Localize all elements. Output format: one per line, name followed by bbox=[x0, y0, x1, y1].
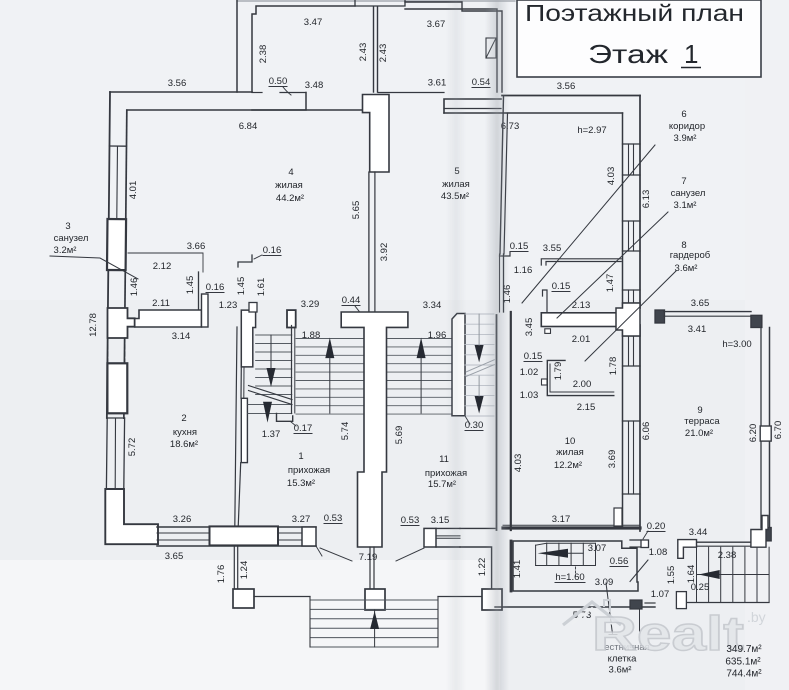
svg-text:2.12: 2.12 bbox=[153, 261, 172, 272]
wall left outer bbox=[107, 92, 110, 418]
svg-text:3.55: 3.55 bbox=[543, 243, 562, 254]
stairwell inner stairs bbox=[546, 543, 548, 565]
svg-text:1.88: 1.88 bbox=[302, 330, 321, 341]
wall left bay outer bbox=[236, 0, 238, 92]
leader 0.44 bbox=[355, 306, 362, 315]
svg-text:1.78: 1.78 bbox=[608, 357, 619, 376]
wall room10 top bar bbox=[541, 313, 621, 327]
svg-text:3.2м²: 3.2м² bbox=[54, 245, 77, 256]
threshold right bay bbox=[378, 92, 444, 94]
stair arrow down 1 bbox=[267, 368, 276, 387]
pier small bottom bbox=[676, 592, 686, 609]
fold shadow bbox=[485, 0, 509, 690]
bracket 0.16 bbox=[238, 255, 252, 267]
svg-text:1.24: 1.24 bbox=[239, 561, 250, 580]
svg-text:3.26: 3.26 bbox=[173, 514, 192, 525]
svg-text:3.45: 3.45 bbox=[524, 318, 535, 337]
svg-text:3.34: 3.34 bbox=[423, 300, 442, 311]
title block box bbox=[517, 0, 761, 77]
wall stair shaft left pier white bbox=[241, 310, 255, 367]
svg-text:2.01: 2.01 bbox=[572, 334, 591, 345]
windows right wall bbox=[623, 143, 641, 145]
pillar left bbox=[233, 589, 254, 608]
L pier right bbox=[751, 516, 768, 548]
wall right outer lines bbox=[639, 96, 641, 309]
closet walls room8 bbox=[547, 360, 614, 395]
svg-text:2.11: 2.11 bbox=[152, 298, 170, 309]
stair arrow up 2 bbox=[417, 338, 426, 359]
svg-text:1.76: 1.76 bbox=[216, 565, 227, 584]
wall center thin double bbox=[368, 172, 370, 312]
svg-text:15.3м²: 15.3м² bbox=[287, 478, 315, 489]
pier top bay left bbox=[252, 93, 306, 111]
svg-text:6.70: 6.70 bbox=[773, 421, 784, 440]
svg-text:h=3.00: h=3.00 bbox=[722, 339, 751, 350]
svg-text:5.65: 5.65 bbox=[351, 201, 362, 220]
wall right bay outer bbox=[405, 2, 502, 92]
stub 0.16 wall bbox=[202, 294, 209, 327]
wall room11 right bar bbox=[452, 314, 465, 416]
pier left C bbox=[107, 363, 127, 413]
leader 0.16 bbox=[254, 255, 262, 259]
pier white small2 bbox=[424, 528, 436, 547]
svg-text:3.9м²: 3.9м² bbox=[674, 133, 697, 144]
svg-text:4.03: 4.03 bbox=[606, 167, 617, 186]
stair arrow down 2 bbox=[263, 402, 272, 423]
svg-text:2.00: 2.00 bbox=[573, 379, 592, 390]
svg-text:1.07: 1.07 bbox=[651, 589, 670, 600]
stairs break line bbox=[249, 386, 293, 400]
svg-text:5.69: 5.69 bbox=[394, 426, 405, 445]
wall kitchen top band bbox=[135, 310, 202, 327]
svg-text:1.02: 1.02 bbox=[520, 367, 539, 378]
svg-text:9: 9 bbox=[697, 405, 702, 416]
svg-text:349.7м²: 349.7м² bbox=[726, 644, 762, 655]
svg-text:прихожая: прихожая bbox=[288, 465, 330, 476]
svg-text:21.0м²: 21.0м² bbox=[685, 428, 713, 439]
pier white small1 bbox=[302, 527, 316, 546]
wall top inner right section bbox=[444, 112, 623, 114]
svg-text:10: 10 bbox=[565, 436, 576, 447]
svg-text:1: 1 bbox=[684, 39, 698, 69]
svg-text:12.78: 12.78 bbox=[88, 313, 99, 337]
svg-text:3.67: 3.67 bbox=[427, 19, 446, 30]
bay bump top center bbox=[355, 0, 405, 6]
faint stairs 0.30 bbox=[465, 313, 494, 315]
svg-text:3.14: 3.14 bbox=[172, 331, 191, 342]
leader kletka bbox=[606, 583, 613, 634]
svg-text:6: 6 bbox=[681, 109, 686, 120]
pier left B corner block bbox=[108, 308, 135, 338]
wall 10-11 divider thin top bbox=[503, 254, 505, 312]
wall stair mid pier bbox=[287, 310, 296, 327]
stair arrow down 3 bbox=[475, 345, 484, 362]
pillar center bbox=[365, 589, 385, 610]
dim line 3.66 bbox=[128, 253, 203, 272]
svg-text:1.45: 1.45 bbox=[236, 277, 247, 296]
svg-text:0.53: 0.53 bbox=[324, 513, 343, 524]
wall between bays (double line) bbox=[373, 7, 375, 92]
stair arrow up 1 bbox=[325, 338, 334, 359]
svg-text:0.20: 0.20 bbox=[647, 521, 666, 532]
pier right bay mouth bbox=[444, 99, 501, 113]
wall center pier top bbox=[363, 95, 390, 173]
svg-text:санузел: санузел bbox=[671, 188, 706, 199]
L pier left bbox=[678, 540, 697, 559]
leader 0.50 bbox=[283, 87, 291, 95]
svg-text:3.6м²: 3.6м² bbox=[675, 263, 698, 274]
wall bottom-left corner L black bbox=[105, 489, 158, 544]
svg-text:4: 4 bbox=[288, 167, 293, 178]
wire top scan edge bbox=[237, 0, 515, 2]
svg-text:санузел: санузел bbox=[54, 233, 89, 244]
wall left bay inner outline bbox=[252, 6, 355, 92]
stairs top wall double bbox=[697, 541, 751, 543]
svg-text:1.03: 1.03 bbox=[520, 390, 539, 401]
svg-text:жилая: жилая bbox=[556, 447, 584, 458]
svg-text:0.17: 0.17 bbox=[294, 423, 313, 434]
svg-text:1.37: 1.37 bbox=[262, 429, 281, 440]
svg-text:1.55: 1.55 bbox=[666, 566, 677, 585]
svg-text:18.6м²: 18.6м² bbox=[170, 439, 198, 450]
terrace top wall bbox=[655, 310, 665, 323]
bottom outer line bbox=[495, 606, 655, 608]
svg-text:3.56: 3.56 bbox=[168, 78, 187, 89]
svg-text:0.56: 0.56 bbox=[610, 556, 629, 567]
svg-text:0.16: 0.16 bbox=[263, 245, 282, 256]
window left w1 divisions bbox=[109, 145, 126, 147]
svg-text:1.23: 1.23 bbox=[219, 300, 238, 311]
wall to corner bbox=[460, 527, 495, 529]
svg-text:2.43: 2.43 bbox=[378, 44, 389, 63]
svg-text:1: 1 bbox=[298, 451, 303, 462]
wall stairwell left black bbox=[510, 541, 513, 591]
window left w2 bbox=[107, 417, 125, 419]
opening dashed left wall bbox=[107, 338, 109, 363]
terrace right wall bbox=[769, 328, 771, 529]
leader room3 bbox=[50, 256, 138, 279]
svg-text:Realt: Realt bbox=[592, 608, 744, 661]
jamb right bbox=[614, 508, 622, 526]
stairs left run bbox=[256, 334, 292, 336]
svg-text:0.53: 0.53 bbox=[401, 515, 420, 526]
svg-text:Поэтажный план: Поэтажный план bbox=[525, 0, 744, 26]
svg-text:3.1м²: 3.1м² bbox=[674, 200, 697, 211]
wall stair-kitchen double bbox=[235, 327, 237, 527]
svg-text:3.41: 3.41 bbox=[688, 324, 707, 335]
svg-text:1.79: 1.79 bbox=[553, 362, 564, 381]
leader room7 bbox=[557, 212, 668, 318]
svg-text:4.03: 4.03 bbox=[513, 454, 524, 473]
svg-text:терраса: терраса bbox=[684, 416, 720, 427]
pier right wall L-expand bbox=[616, 303, 640, 336]
svg-text:h=2.97: h=2.97 bbox=[577, 125, 606, 136]
svg-text:0.50: 0.50 bbox=[269, 76, 288, 87]
stairs right run bbox=[387, 338, 453, 340]
stair arrow down 4 bbox=[475, 396, 484, 414]
svg-text:1.47: 1.47 bbox=[605, 274, 616, 293]
svg-text:0.16: 0.16 bbox=[206, 282, 225, 293]
stairs bottom-right treads bbox=[696, 547, 698, 602]
svg-text:0.25: 0.25 bbox=[691, 582, 710, 593]
svg-text:3.27: 3.27 bbox=[292, 514, 311, 525]
svg-text:0.15: 0.15 bbox=[552, 281, 571, 292]
window 3.27 bbox=[278, 532, 302, 534]
svg-text:2.38: 2.38 bbox=[258, 45, 269, 64]
svg-text:6.20: 6.20 bbox=[748, 424, 759, 443]
wall sanuzel7 left stub bbox=[543, 290, 548, 313]
svg-text:.by: .by bbox=[747, 609, 766, 625]
wall 10-11 divider black bbox=[496, 315, 498, 530]
leader 0.20 bbox=[643, 531, 648, 539]
step piece 0.20 bbox=[641, 540, 649, 548]
porch steps bbox=[310, 599, 438, 601]
svg-text:1.08: 1.08 bbox=[649, 547, 668, 558]
svg-text:3.09: 3.09 bbox=[595, 577, 614, 588]
svg-text:жилая: жилая bbox=[275, 180, 303, 191]
watermark roof bbox=[563, 602, 621, 625]
wall room10 bottom black bbox=[503, 526, 640, 529]
svg-text:h=1.60: h=1.60 bbox=[555, 572, 584, 583]
wall right bay inner bbox=[405, 9, 497, 92]
column center lines bbox=[369, 547, 371, 589]
svg-text:744.4м²: 744.4м² bbox=[726, 669, 762, 680]
door swing stairwell bbox=[630, 560, 648, 582]
svg-text:2.43: 2.43 bbox=[358, 43, 369, 62]
svg-text:1.64: 1.64 bbox=[686, 565, 697, 584]
wall top outer right section bbox=[502, 95, 640, 97]
bracket 0.15 top bbox=[500, 252, 511, 256]
svg-text:3.44: 3.44 bbox=[689, 527, 708, 538]
svg-text:коридор: коридор bbox=[669, 121, 705, 132]
svg-text:5.72: 5.72 bbox=[127, 438, 138, 457]
svg-text:3.92: 3.92 bbox=[379, 243, 390, 262]
svg-text:3.17: 3.17 bbox=[552, 514, 571, 525]
porch arrow up bbox=[370, 611, 379, 629]
svg-text:кухня: кухня bbox=[173, 427, 197, 438]
door 0.50 threshold bbox=[252, 92, 262, 94]
small sq on pier bbox=[249, 303, 257, 313]
tick 0.15 closet bbox=[542, 379, 548, 385]
wall left inner bbox=[124, 110, 127, 418]
pier bottom kitchen bbox=[210, 526, 279, 545]
svg-text:1.16: 1.16 bbox=[514, 265, 533, 276]
svg-text:6.13: 6.13 bbox=[641, 190, 652, 209]
wall piece below bbox=[630, 600, 642, 609]
pillar right bbox=[482, 589, 502, 610]
svg-text:1.46: 1.46 bbox=[129, 278, 140, 297]
svg-text:3.65: 3.65 bbox=[165, 551, 184, 562]
svg-text:0.30: 0.30 bbox=[465, 420, 484, 431]
svg-text:12.2м²: 12.2м² bbox=[554, 460, 582, 471]
svg-text:3.56: 3.56 bbox=[557, 81, 576, 92]
stair foot piece 0.17 bbox=[277, 414, 293, 422]
wall sanuzel right bbox=[198, 272, 200, 309]
wall top inner left section bbox=[127, 109, 362, 111]
svg-text:гардероб: гардероб bbox=[670, 250, 711, 261]
stairwell box bbox=[513, 541, 638, 591]
stairs right arrow bbox=[699, 570, 720, 579]
svg-text:0.15: 0.15 bbox=[524, 351, 543, 362]
leader room6 bbox=[522, 145, 655, 303]
svg-text:3.07: 3.07 bbox=[588, 543, 607, 554]
leader room8 bbox=[585, 271, 676, 361]
window 3.15 bbox=[436, 527, 460, 529]
svg-text:3.47: 3.47 bbox=[304, 17, 323, 28]
svg-text:1.96: 1.96 bbox=[428, 330, 447, 341]
svg-text:635.1м²: 635.1м² bbox=[725, 657, 761, 668]
svg-text:6.84: 6.84 bbox=[239, 121, 258, 132]
svg-text:3.6м²: 3.6м² bbox=[609, 665, 632, 676]
svg-text:Этаж: Этаж bbox=[588, 39, 669, 69]
svg-text:3.69: 3.69 bbox=[607, 450, 618, 469]
svg-text:2.15: 2.15 bbox=[577, 402, 596, 413]
door swing 2 bbox=[396, 548, 424, 561]
svg-text:5.74: 5.74 bbox=[340, 422, 351, 441]
svg-text:7: 7 bbox=[681, 176, 686, 187]
wall top outer left section bbox=[110, 91, 252, 93]
window 3.26 bbox=[157, 532, 208, 534]
porch: below kitchen wall bbox=[233, 546, 235, 589]
vent mark right bay bbox=[486, 38, 496, 58]
wall room5 right double bbox=[500, 96, 504, 254]
svg-text:2: 2 bbox=[181, 413, 186, 424]
svg-text:1.61: 1.61 bbox=[256, 278, 267, 297]
svg-text:1.45: 1.45 bbox=[185, 276, 196, 295]
pier stair left lower white bar bbox=[241, 398, 247, 462]
svg-text:44.2м²: 44.2м² bbox=[276, 193, 304, 204]
svg-text:3.48: 3.48 bbox=[305, 80, 324, 91]
leader 0.17 bbox=[290, 421, 296, 426]
svg-text:3.61: 3.61 bbox=[428, 78, 447, 89]
svg-text:6.06: 6.06 bbox=[641, 422, 652, 441]
svg-text:0.44: 0.44 bbox=[342, 295, 361, 306]
svg-text:3.65: 3.65 bbox=[691, 298, 710, 309]
terrace corner post bbox=[762, 528, 771, 541]
stairwell arrow bbox=[538, 549, 568, 558]
door swing 1 bbox=[320, 548, 352, 561]
svg-text:0.15: 0.15 bbox=[510, 241, 529, 252]
wall bottom band lines bbox=[157, 526, 316, 528]
stairs center run bbox=[296, 338, 364, 340]
porch line bbox=[254, 596, 310, 598]
svg-text:4.01: 4.01 bbox=[128, 181, 139, 200]
svg-text:3.29: 3.29 bbox=[301, 299, 320, 310]
svg-text:2.38: 2.38 bbox=[718, 550, 737, 561]
wall center T bbox=[341, 312, 408, 547]
svg-text:3.66: 3.66 bbox=[187, 241, 206, 252]
pier left A bbox=[107, 219, 126, 270]
svg-text:1.41: 1.41 bbox=[512, 560, 523, 579]
wall 3.55 shelf bbox=[541, 259, 621, 265]
svg-text:3: 3 bbox=[65, 221, 70, 232]
wall stub left of stairs bbox=[630, 539, 641, 541]
stub below bar bbox=[545, 329, 551, 334]
